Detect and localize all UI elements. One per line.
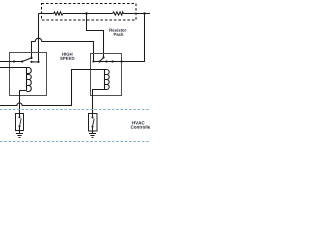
relay coil left [27,68,32,92]
relay box left [10,53,47,96]
wire: left feed drop from pack to left relay contact [38,14,40,62]
relay box right [91,54,122,96]
label Resistor [109,28,126,31]
wire: left relay common from left edge [0,61,22,63]
ground right [89,134,96,138]
transistor box left [16,114,24,131]
node: left relay terminal [13,60,15,62]
wire: between resistors [63,13,113,15]
label SPEED [60,57,74,60]
HVAC controller boundary dashed line lower [0,141,150,143]
node: left relay pivot [21,60,23,62]
wire: main feed horizontal left segment [39,13,54,15]
wire: cross wire with hop joining both relays [32,38,94,61]
switch blade left relay [22,58,31,62]
label HVAC [132,121,144,124]
transistor switch left [19,116,21,118]
switch blade right relay [100,58,104,62]
transistor box right [89,114,98,132]
wire: right power rail down to relay row [94,14,145,62]
wire: left coil top feed from left edge [0,67,27,69]
label Pack [114,33,124,36]
node: right relay contact c [105,60,107,62]
resistor R1 [54,12,63,15]
wire: left coil bottom to transistor [20,91,27,118]
relay coil right [105,70,110,90]
node: left relay contact a [30,61,32,63]
wire: feed to right edge [123,13,150,15]
resistor R2 [113,12,124,15]
node: right relay box edge terminal [120,60,122,62]
wire: right coil bottom to transistor [93,90,105,118]
wire: left relay contact row segment [32,61,39,63]
node: resistor mid junction [85,12,87,14]
node: right relay contact d [111,60,113,62]
resistor pack dashed enclosure [42,4,137,21]
HVAC controller boundary dashed line upper [0,109,150,111]
node: right blade tip [102,56,104,58]
wire: left transistor to ground [19,126,21,133]
node: right rail junction [143,12,145,14]
wire: right transistor to ground [92,127,94,134]
node: right relay contact feed [92,60,94,62]
node: left relay contact b [37,61,39,63]
label Controller [131,125,152,128]
node: right relay pivot [98,60,100,62]
transistor switch right [92,117,94,119]
wire: mid junction jog down to right relay blade tip [87,14,104,58]
wire: controller line to right coil with hop [0,70,105,106]
node: left blade tip [30,57,32,59]
ground left [16,134,23,138]
label HIGH [62,53,72,56]
